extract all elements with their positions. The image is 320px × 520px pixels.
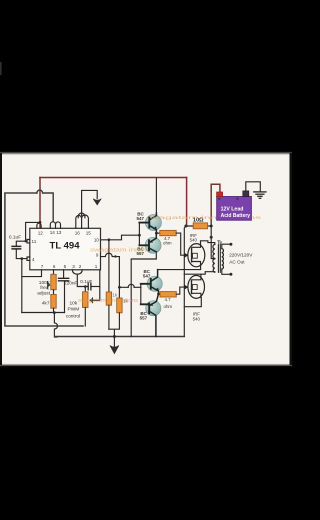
wire pin3/2 to C3 [77, 274, 88, 286]
svg-text:4: 4 [32, 257, 35, 262]
wire 100K to 4k7 [53, 290, 55, 295]
node bus-gnd [113, 335, 116, 338]
transistor Q4 BC557 [141, 294, 161, 337]
node VCC pin12 junction [39, 221, 42, 224]
label 100K freq adjust [37, 280, 51, 296]
svg-text:swagatam innovations: swagatam innovations [78, 298, 139, 304]
wire feedback hop over red and to pin14 [37, 190, 53, 221]
wire left gnd riser [21, 259, 23, 313]
svg-text:AC Out: AC Out [229, 259, 245, 264]
pin 4 stub [27, 257, 30, 260]
svg-text:15: 15 [86, 230, 92, 235]
svg-text:PWM: PWM [68, 307, 80, 313]
node R8 right [210, 225, 213, 228]
node C1 bottom junction [20, 257, 23, 260]
mosfet M2 IRF540 [184, 274, 204, 298]
svg-text:5: 5 [64, 264, 67, 269]
wire R5 bottom joined to R4, drop to bus [109, 313, 120, 337]
svg-text:11: 11 [32, 239, 37, 244]
svg-text:12: 12 [38, 230, 44, 235]
wire pin10 to driver A bases [101, 235, 140, 240]
wire pin9 node to driver B bases with hop over T2-collector drop [119, 286, 140, 288]
resistor R2 4k7 [51, 294, 56, 308]
wire driver B base tie [140, 284, 142, 305]
ground (arrow, IC side) [93, 199, 101, 205]
label 10k PWM control [66, 301, 80, 320]
wire 220nF bottom [64, 281, 66, 312]
svg-text:557: 557 [140, 315, 148, 320]
wire pin16 to ground [82, 190, 98, 215]
label BC 557 (Q2) [137, 246, 145, 256]
wire M2 source return [184, 298, 201, 307]
wire pin5 to 220nF [63, 270, 65, 278]
wire pin3-2 bridge [73, 270, 83, 274]
label 4.7 ohm (R6) [163, 236, 172, 246]
wire R4 top lead [108, 240, 110, 292]
svg-text:1: 1 [95, 264, 98, 269]
capacitor C2 220nF [59, 278, 69, 281]
wire C1 bottom to pin4 [16, 250, 27, 259]
node driver B emitters [157, 293, 160, 296]
wire driver A base tie [138, 223, 140, 246]
label pin numbers top [38, 230, 92, 235]
svg-text:6: 6 [53, 264, 56, 269]
wire pot bottom to loop [84, 308, 86, 327]
node pot top [84, 285, 87, 288]
10k wiper arrow [90, 298, 92, 303]
wire ground bus [55, 336, 185, 338]
svg-text:swagatam innov: swagatam innov [90, 248, 149, 254]
svg-text:10k: 10k [70, 301, 78, 307]
label IRF 540 (M1) [190, 233, 198, 243]
svg-text:1k: 1k [113, 293, 118, 298]
wire node row y312.5 [22, 312, 65, 314]
resistor R6 4.7 ohm [156, 232, 159, 234]
transistor Q3 BC547 [141, 270, 162, 294]
svg-text:12V Lead: 12V Lead [221, 206, 244, 212]
svg-text:16: 16 [75, 230, 81, 235]
svg-text:3: 3 [72, 264, 75, 269]
wire Q1 collector to red bus [155, 178, 157, 213]
svg-text:4k7: 4k7 [42, 301, 50, 307]
wire pin6 to 100K [53, 270, 55, 275]
resistor R8 10 ohm [186, 225, 211, 227]
label IRF 540 (M2) [193, 312, 201, 322]
wire pin12-dot branch to pin11 node [26, 222, 40, 241]
node pin9 stray dot [114, 255, 116, 257]
svg-text:0.1uF: 0.1uF [80, 279, 92, 284]
wire battery minus to ground [246, 182, 260, 191]
svg-text:Acid Battery: Acid Battery [221, 213, 251, 219]
resistor R4 1k [106, 292, 111, 305]
wire pot top [84, 287, 86, 292]
wire pin7 down-left [22, 270, 42, 277]
svg-text:ohm: ohm [164, 304, 173, 309]
svg-text:Tr: Tr [217, 240, 222, 246]
svg-text:13: 13 [56, 230, 62, 235]
svg-text:540: 540 [193, 316, 201, 321]
node driver A emitters [155, 232, 158, 235]
ground (main, arrow below bus) [113, 337, 115, 348]
wire M1 source + Q3 collector rail [158, 265, 201, 270]
battery 12V Lead Acid [217, 191, 252, 220]
transistor Q1 BC547 [139, 213, 161, 233]
100K wiper arrow [48, 282, 50, 289]
transistor Q2 BC557 [139, 233, 161, 253]
node pin9 / R5 [118, 286, 121, 289]
ground (battery, bar style) [254, 192, 266, 198]
svg-text:14: 14 [50, 230, 56, 235]
pin 12 stub [37, 223, 41, 228]
label 220V/120V AC Out [229, 252, 253, 264]
wire R7 to M2 gate [176, 287, 184, 294]
svg-text:547: 547 [137, 216, 145, 221]
svg-text:control: control [66, 314, 80, 320]
label pin numbers sides [32, 237, 100, 261]
node 4k7 bottom [53, 311, 56, 314]
node pin10 / R4 [108, 238, 111, 241]
svg-text:220V/120V: 220V/120V [229, 252, 253, 257]
wire R6 to M1 gate [176, 233, 184, 255]
capacitor C3 0.1uF [88, 283, 91, 290]
pin 11 stub [27, 240, 30, 243]
svg-text:4.7: 4.7 [164, 297, 171, 302]
svg-text:1k: 1k [123, 298, 128, 303]
resistor R1 100K freq pot [51, 274, 56, 290]
label pin numbers bottom [41, 264, 98, 269]
svg-text:7: 7 [41, 264, 44, 269]
pin 14 13 bridge stub [50, 222, 60, 229]
resistor R3 10k PWM pot [83, 292, 89, 308]
wire pin1 riser to wiper [93, 270, 100, 301]
wire C1 top to pin11 [16, 241, 27, 246]
svg-text:TL 494: TL 494 [50, 240, 80, 250]
primary winding [213, 244, 215, 258]
svg-text:540: 540 [190, 237, 198, 242]
op-amp U1 TL494 body [30, 228, 101, 269]
core [218, 245, 220, 272]
pin 16 15 bridge stub [76, 215, 89, 228]
wire driver supply / source return vertical [184, 226, 186, 336]
label BC 547 (Q3) [143, 269, 151, 279]
node pin11 feed [24, 240, 26, 242]
svg-text:adjust: adjust [37, 290, 50, 296]
secondary winding [222, 249, 224, 270]
wire transformer primary bottom feed [184, 272, 215, 275]
secondary leads [222, 244, 230, 274]
wire C3 right to pin1 riser [91, 286, 100, 288]
svg-text:2: 2 [79, 264, 82, 269]
label BC 547 (Q1) [137, 211, 145, 221]
svg-text:220nF: 220nF [64, 280, 77, 285]
mosfet M1 IRF540 [184, 244, 205, 267]
wire 4k7-bottom drop with hop to bus [54, 313, 57, 337]
svg-text:0.1uF: 0.1uF [9, 234, 21, 240]
resistor R7 4.7 ohm [159, 293, 161, 295]
node center tap mid [210, 236, 213, 239]
label BC 557 (Q4) [140, 311, 148, 321]
wire +12V red bus [40, 178, 220, 227]
wire 4k7 to node [53, 308, 55, 312]
wire feedback loop (left outer) [5, 193, 83, 326]
wire T2 collector to bus [131, 252, 156, 337]
svg-text:10: 10 [94, 237, 100, 242]
wire pin9 right with hop over R4 lead, down [101, 253, 120, 298]
wire battery + center tap feed [211, 226, 212, 259]
label 4.7 ohm (R7) [164, 297, 173, 309]
wire M1 drain to primary top [201, 241, 215, 245]
resistor R5 1k [117, 298, 122, 313]
wire red pin12 drop [39, 222, 41, 228]
node R8 left [184, 225, 187, 228]
transformer Tr [213, 243, 233, 276]
svg-text:ohm: ohm [163, 240, 172, 245]
svg-text:547: 547 [143, 274, 151, 279]
wire R4 bottom [108, 305, 110, 329]
